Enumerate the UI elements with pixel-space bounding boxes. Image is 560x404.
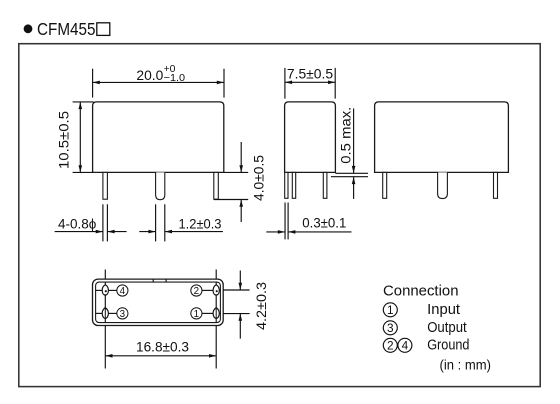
svg-text:20.0: 20.0 xyxy=(136,68,163,83)
svg-text:3: 3 xyxy=(120,309,126,320)
svg-text:4-0.8ϕ: 4-0.8ϕ xyxy=(58,217,97,232)
svg-text:4: 4 xyxy=(120,286,126,297)
svg-text:7.5±0.5: 7.5±0.5 xyxy=(287,67,334,82)
svg-text:(in : mm): (in : mm) xyxy=(440,357,492,373)
svg-text:16.8±0.3: 16.8±0.3 xyxy=(136,339,189,355)
svg-text:2: 2 xyxy=(387,339,394,353)
svg-text:Ground: Ground xyxy=(427,337,469,353)
svg-text:4.0±0.5: 4.0±0.5 xyxy=(251,155,266,201)
svg-text:3: 3 xyxy=(387,321,394,335)
svg-text:10.5±0.5: 10.5±0.5 xyxy=(56,111,71,169)
svg-text:CFM455: CFM455 xyxy=(37,19,96,39)
svg-text:1: 1 xyxy=(194,309,199,320)
svg-text:0.5 max.: 0.5 max. xyxy=(338,107,353,164)
svg-text:4: 4 xyxy=(402,339,409,353)
svg-text:Input: Input xyxy=(427,302,460,318)
svg-text:Output: Output xyxy=(427,320,467,336)
svg-text:1.2±0.3: 1.2±0.3 xyxy=(179,217,222,232)
svg-text:0.3±0.1: 0.3±0.1 xyxy=(302,215,346,230)
svg-text:Connection: Connection xyxy=(383,283,459,299)
svg-text:4.2±0.3: 4.2±0.3 xyxy=(254,282,269,330)
svg-text:1: 1 xyxy=(387,303,394,317)
svg-text:−1.0: −1.0 xyxy=(164,73,186,84)
svg-text:2: 2 xyxy=(194,286,199,297)
